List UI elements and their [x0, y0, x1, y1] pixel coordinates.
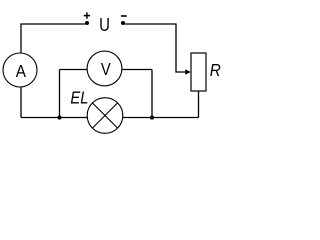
- right vertical wire of parallel section: [151, 70, 153, 118]
- ammeter A: [3, 53, 37, 87]
- lamp EL: [87, 98, 123, 134]
- left vertical wire of parallel section: [59, 70, 61, 118]
- svg-text:EL: EL: [70, 88, 88, 108]
- wire from resistor bottom to rail: [198, 91, 200, 118]
- junction dot left: [57, 115, 61, 119]
- + sign: [84, 12, 90, 18]
- resistor R (rheostat body): [191, 53, 206, 91]
- junction dot right: [150, 115, 154, 119]
- wiper arrowhead: [185, 69, 191, 74]
- + terminal: [85, 21, 89, 25]
- svg-text:A: A: [16, 61, 27, 81]
- bottom rail wire: [21, 117, 199, 119]
- svg-text:U: U: [99, 14, 110, 35]
- svg-text:R: R: [210, 60, 221, 80]
- - terminal: [121, 21, 125, 25]
- wire from + terminal left and down to ammeter: [21, 24, 85, 118]
- voltmeter branch wire: [60, 69, 153, 71]
- svg-text:V: V: [101, 60, 111, 80]
- voltmeter V: [87, 51, 122, 86]
- wire from - terminal right and down to rheostat wiper: [125, 24, 187, 72]
- - sign: [121, 15, 127, 17]
